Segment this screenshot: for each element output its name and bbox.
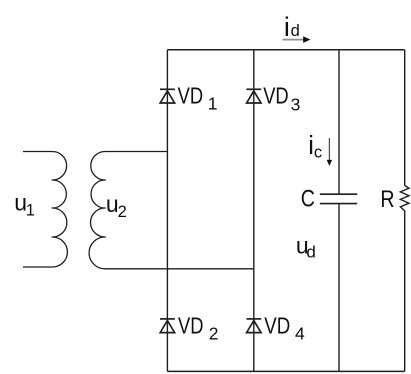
svg-text:i: i — [284, 12, 290, 42]
label VD2 — [178, 312, 219, 343]
svg-text:c: c — [314, 143, 322, 161]
svg-text:VD: VD — [263, 83, 289, 109]
label ud — [296, 233, 316, 262]
svg-text:1: 1 — [208, 94, 218, 114]
diode VD3 — [246, 89, 261, 103]
label id — [284, 12, 300, 42]
svg-text:d: d — [306, 242, 315, 261]
wire resistor branch upper — [404, 50, 406, 186]
svg-text:2: 2 — [118, 203, 127, 221]
svg-text:d: d — [291, 22, 300, 40]
label u1 — [14, 189, 35, 219]
resistor R zigzag — [400, 186, 409, 211]
diode VD4 — [246, 319, 261, 333]
svg-text:1: 1 — [26, 201, 35, 219]
wire bottom bus — [167, 370, 404, 372]
wire second bridge branch — [253, 50, 255, 372]
svg-text:VD: VD — [178, 312, 204, 338]
svg-text:VD: VD — [264, 312, 290, 338]
svg-text:2: 2 — [209, 324, 219, 344]
inductor primary winding — [23, 151, 67, 267]
svg-text:4: 4 — [295, 323, 305, 343]
diode VD1 — [160, 89, 175, 103]
svg-text:3: 3 — [291, 95, 301, 115]
inductor secondary winding — [89, 151, 254, 268]
arrow id current — [282, 36, 310, 43]
arrow ic current — [327, 138, 332, 166]
wire top bus — [167, 49, 404, 51]
capacitor C plates — [320, 194, 357, 203]
svg-text:C: C — [301, 186, 315, 213]
svg-text:R: R — [380, 186, 394, 213]
label VD3 — [263, 83, 300, 115]
label ic — [308, 132, 322, 162]
label VD1 — [178, 82, 218, 113]
diode VD2 — [160, 319, 175, 333]
label VD4 — [264, 312, 305, 343]
wire resistor branch lower — [404, 211, 406, 372]
svg-text:VD: VD — [178, 82, 204, 108]
wire capacitor branch lower — [338, 204, 340, 372]
wire capacitor branch upper — [338, 50, 340, 195]
wire left bridge branch — [166, 50, 168, 372]
label u2 — [106, 191, 127, 221]
